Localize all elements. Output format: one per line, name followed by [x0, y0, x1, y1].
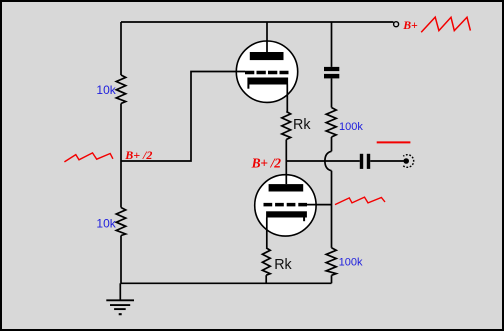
svg-text:Rk: Rk	[293, 117, 311, 133]
svg-text:Rk: Rk	[274, 257, 292, 273]
svg-text:B+ /2: B+ /2	[251, 155, 282, 170]
svg-text:10k: 10k	[96, 217, 116, 231]
svg-text:10k: 10k	[96, 83, 116, 97]
svg-text:B+ /2: B+ /2	[124, 148, 152, 162]
svg-text:B+: B+	[402, 18, 418, 32]
svg-text:100k: 100k	[339, 257, 363, 269]
svg-text:100k: 100k	[339, 121, 363, 133]
